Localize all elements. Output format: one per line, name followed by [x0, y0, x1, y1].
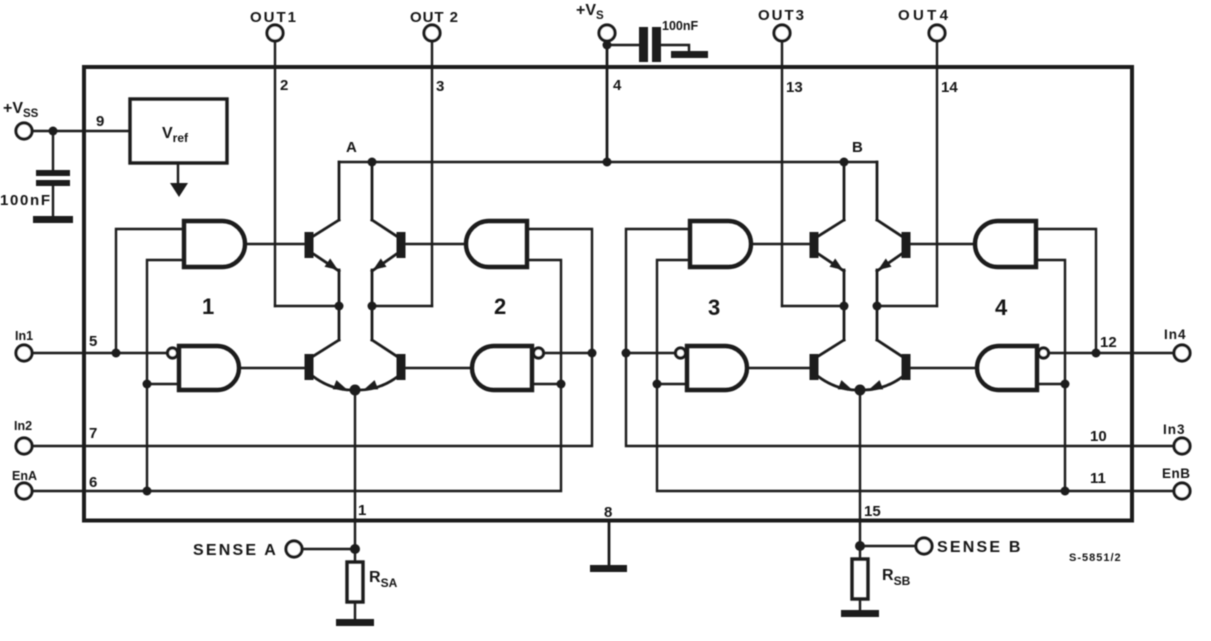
node bridge B left midpoint: [840, 302, 849, 311]
wire OUT4 pin 14 vertical: [936, 41, 938, 306]
svg-text:RSB: RSB: [882, 567, 911, 588]
pin OUT4 terminal: [929, 25, 945, 41]
pin In1 terminal: [16, 345, 32, 361]
wire sense B vertical pin 15: [859, 390, 861, 559]
wire EnB branch up to gate4 inputs: [1036, 260, 1065, 491]
wire gate1 lower output to Q2 base: [239, 367, 305, 369]
pin EnB terminal: [1174, 483, 1190, 499]
node In1 / gate1 upper branch: [112, 349, 121, 358]
wire OUT2 pin 3 vertical: [431, 41, 433, 306]
wire In2 branch to gate2 lower bubble: [544, 352, 592, 354]
wire +Vs to capacitor: [607, 44, 640, 46]
svg-text:EnB: EnB: [1162, 466, 1191, 481]
wire cap to ground: [52, 186, 54, 217]
svg-text:14: 14: [941, 79, 958, 96]
transistor Q3 (bridge A upper right): [372, 220, 406, 306]
pin OUT3 terminal: [774, 25, 790, 41]
capacitor 100nF on +Vss (top plate): [36, 170, 70, 176]
voltage reference block Vref: [130, 99, 227, 163]
wire In2 net pin 7: [32, 229, 592, 446]
pin OUT2 terminal: [424, 25, 440, 41]
wire SENSE A stub: [302, 548, 355, 550]
pin +Vss terminal: [16, 123, 32, 139]
node In3 / gate3 lower bubble branch: [622, 349, 631, 358]
svg-text:4: 4: [613, 77, 622, 94]
wire In1 branch up to gate1 upper input: [116, 229, 184, 353]
capacitor 100nF on +Vss (bottom plate): [36, 180, 70, 186]
svg-text:2: 2: [494, 294, 506, 319]
wire OUT3 tap: [782, 305, 844, 307]
IC outline frame: [84, 67, 1132, 521]
pin SENSE B terminal: [916, 538, 932, 554]
pin SENSE A terminal: [286, 541, 302, 557]
pin +Vs terminal: [599, 25, 615, 41]
svg-text:3: 3: [708, 295, 720, 320]
transistor Q7 (bridge B upper right): [877, 220, 911, 306]
transistor Q8 (bridge B lower right): [864, 306, 911, 390]
svg-text:SENSE A: SENSE A: [193, 542, 278, 559]
bubble gate4 lower input: [1039, 348, 1049, 358]
wire gate1 upper output to Q1 base: [245, 243, 305, 245]
wire OUT2 tap: [372, 305, 432, 307]
svg-text:7: 7: [89, 425, 97, 442]
node sense A junction: [350, 544, 360, 554]
transistor Q1 (bridge A upper left): [305, 220, 340, 306]
svg-text:OUT3: OUT3: [758, 7, 804, 24]
svg-text:In4: In4: [1164, 327, 1187, 342]
pin OUT1 terminal: [267, 25, 283, 41]
wire bridge B right column: [876, 162, 879, 220]
node In4 / gate4 upper branch: [1092, 349, 1101, 358]
svg-text:9: 9: [96, 113, 104, 130]
node bridge A left midpoint: [335, 302, 344, 311]
wire OUT3 pin 13 vertical: [781, 41, 783, 306]
node EnB / gate3 lower input: [653, 380, 662, 389]
bubble gate2 lower input: [534, 348, 544, 358]
bubble gate1 lower input: [168, 348, 178, 358]
wire EnB net pin 11: [657, 260, 1174, 491]
wire capacitor to ground: [661, 45, 689, 52]
supply rail +Vs horizontal: [339, 161, 877, 163]
svg-text:B: B: [852, 139, 863, 156]
node rail / bridge B left column: [840, 158, 849, 167]
wire sense A vertical pin 1: [354, 390, 356, 562]
node +Vs cap tap: [603, 41, 612, 50]
wire OUT1 pin 2 vertical: [274, 41, 276, 306]
wire gate3 lower second input: [657, 383, 687, 385]
and-gate block4 lower (mirrored, inverted input): [977, 346, 1037, 390]
node sense B junction: [855, 541, 865, 551]
wire gate3 upper output to Q5 base: [751, 243, 810, 245]
transistor Q5 (bridge B upper left): [810, 220, 845, 306]
wire gate2 upper output to Q3 base: [405, 243, 466, 245]
and-gate block1 upper: [184, 221, 245, 267]
node EnB branch / gate4 lower input: [1061, 380, 1070, 389]
wire bridge A right column: [371, 162, 374, 220]
wire gate4 upper output to Q7 base: [910, 243, 975, 245]
pin EnA terminal: [16, 483, 32, 499]
wire gate3 lower output to Q6 base: [747, 367, 810, 369]
wire In4 net pin 12: [1049, 352, 1174, 354]
svg-text:4: 4: [995, 295, 1008, 320]
svg-text:In3: In3: [1163, 422, 1186, 437]
svg-text:100nF: 100nF: [0, 192, 50, 209]
node +Vss cap tap: [49, 127, 58, 136]
wire In4 branch up to gate4 upper input: [1036, 229, 1096, 353]
node rail / bridge A right column: [368, 158, 377, 167]
svg-text:15: 15: [864, 503, 881, 520]
ground bar for +Vss capacitor: [33, 216, 73, 223]
svg-text:11: 11: [1090, 470, 1106, 487]
wire bridge B left column: [843, 162, 846, 220]
svg-text:SENSE B: SENSE B: [937, 539, 1023, 556]
wire EnA branch up to gate1 inputs: [147, 260, 184, 491]
node bridge A right midpoint: [368, 302, 377, 311]
wire gate2 lower second input: [532, 383, 561, 385]
ground bar RSA: [336, 619, 374, 626]
transistor Q2 (bridge A lower left): [305, 306, 353, 390]
resistor RSB: [852, 559, 868, 599]
svg-text:1: 1: [358, 502, 366, 519]
wire RSB to ground: [859, 599, 861, 611]
svg-text:Vref: Vref: [162, 125, 189, 145]
svg-text:+VSS: +VSS: [3, 100, 39, 120]
Vref output arrow: [177, 163, 179, 184]
pin In4 terminal: [1174, 345, 1190, 361]
wire In3 net pin 10: [626, 229, 1174, 446]
wire OUT1 tap: [275, 305, 339, 307]
wire In3 branch to gate3 lower bubble: [626, 352, 675, 354]
wire +Vs pin 4 vertical: [606, 41, 609, 162]
node bridge B right midpoint: [873, 302, 882, 311]
svg-text:1: 1: [202, 294, 214, 319]
and-gate block3 lower (inverted input): [687, 346, 747, 390]
ground bar pin 8: [590, 565, 627, 572]
pin In3 terminal: [1174, 438, 1190, 454]
wire RSA to ground: [354, 602, 356, 620]
node bridge B emitter junction: [855, 385, 866, 396]
svg-text:10: 10: [1090, 428, 1107, 445]
wire SENSE B stub: [860, 545, 916, 547]
svg-text:EnA: EnA: [12, 469, 37, 483]
and-gate block3 upper: [690, 221, 751, 267]
wire In1 net pin 5: [32, 352, 167, 354]
node EnA / gate2 lower input: [557, 380, 566, 389]
pin In2 terminal: [16, 438, 32, 454]
and-gate block1 lower (inverted input): [179, 346, 239, 390]
wire +Vss pin 9 into Vref: [32, 130, 130, 132]
wire GND pin 8: [608, 521, 611, 566]
svg-text:2: 2: [280, 77, 288, 94]
svg-text:3: 3: [436, 78, 444, 95]
svg-text:12: 12: [1100, 334, 1117, 351]
node In2 / gate2 lower bubble branch: [588, 349, 597, 358]
svg-text:OUT4: OUT4: [898, 7, 949, 24]
wire gate2 lower output to Q4 base: [405, 367, 472, 369]
transistor Q4 (bridge A lower right): [359, 306, 406, 390]
svg-text:RSA: RSA: [369, 569, 398, 590]
node bridge A emitter junction: [350, 385, 361, 396]
svg-text:In1: In1: [15, 329, 33, 343]
and-gate block2 upper (mirrored): [466, 221, 527, 267]
svg-text:13: 13: [786, 79, 803, 96]
svg-text:100nF: 100nF: [662, 19, 698, 33]
bubble gate3 lower input: [676, 348, 686, 358]
ground bar RSB: [841, 610, 879, 617]
capacitor 100nF on +Vs (left plate): [639, 27, 648, 62]
ground bar for +Vs capacitor: [671, 51, 708, 58]
svg-text:8: 8: [604, 504, 612, 521]
wire cap tap down: [52, 131, 54, 171]
wire gate1 lower second input: [147, 383, 179, 385]
wire OUT4 tap: [877, 305, 937, 307]
node rail / pin4 junction: [603, 158, 612, 167]
svg-text:5: 5: [89, 333, 97, 350]
svg-text:S-5851/2: S-5851/2: [1069, 552, 1122, 564]
node EnA branch / gate1 lower input: [143, 380, 152, 389]
svg-text:In2: In2: [14, 419, 32, 433]
node EnA / gate1 branch: [143, 487, 152, 496]
capacitor 100nF on +Vs (right plate): [652, 27, 661, 62]
wire gate4 lower output to Q8 base: [910, 367, 977, 369]
wire gate4 lower second input: [1037, 383, 1065, 385]
node EnB / gate4 branch: [1061, 487, 1070, 496]
wire EnA net pin 6: [32, 260, 561, 491]
transistor Q6 (bridge B lower left): [810, 306, 858, 390]
svg-text:6: 6: [89, 474, 97, 491]
and-gate block4 upper (mirrored): [975, 221, 1036, 267]
wire bridge A left column: [338, 162, 341, 220]
resistor RSA: [347, 562, 363, 602]
svg-text:OUT1: OUT1: [250, 9, 296, 26]
svg-text:OUT 2: OUT 2: [410, 9, 458, 26]
svg-text:+VS: +VS: [576, 2, 604, 22]
svg-text:A: A: [346, 139, 357, 156]
and-gate block2 lower (mirrored, inverted input): [472, 346, 532, 390]
